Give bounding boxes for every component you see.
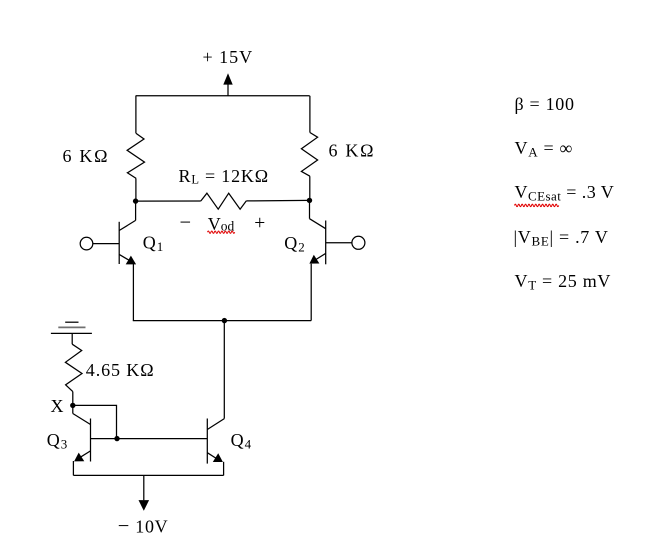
spellcheck squiggle under VCEsat [515, 204, 559, 206]
Q3 emitter wire [72, 461, 74, 475]
resistor RL 12K [201, 193, 247, 209]
wire node Q1 to RL [136, 200, 201, 202]
resistor 4.65K [65, 344, 82, 391]
wire top rail [136, 95, 310, 97]
Q2 collector wire [309, 200, 311, 218]
wire RL to node Q2 [246, 199, 309, 202]
Q2 emitter wire [310, 264, 312, 321]
node collector Q1 [133, 198, 138, 203]
wire right resistor to node [309, 176, 311, 200]
svg-text:−: − [180, 212, 192, 234]
transistor Q4 [207, 419, 224, 476]
wire emitter rail [133, 320, 311, 322]
transistor Q2 [309, 200, 365, 320]
Q4 emitter [207, 453, 218, 460]
svg-text:VA = ∞: VA = ∞ [515, 138, 574, 160]
wire left branch top [135, 96, 137, 133]
svg-text:6 KΩ: 6 KΩ [63, 146, 110, 166]
wire base rail Q3-Q4 [91, 438, 208, 440]
node tail junction [222, 318, 227, 323]
+15V supply arrow [227, 84, 229, 96]
wire resistor to node X [72, 392, 74, 406]
svg-text:|VBE| = .7 V: |VBE| = .7 V [514, 227, 609, 249]
Q1 collector wire [135, 201, 137, 220]
resistor 6K ohm right [301, 133, 317, 177]
Q4 base bar [206, 419, 208, 464]
svg-text:+ 15V: + 15V [203, 47, 254, 67]
node collector Q2 [307, 198, 312, 203]
wire tail down to Q4 collector [223, 321, 225, 419]
Q4 collector wire [207, 419, 224, 430]
wire right branch top [309, 96, 311, 133]
Q3 collector wire [72, 405, 74, 413]
svg-text:6 KΩ: 6 KΩ [329, 141, 376, 161]
resistor 6K ohm left [127, 133, 144, 178]
Q1 emitter wire [132, 264, 134, 321]
Q2 input terminal circle [352, 236, 365, 249]
wire node X to base drop [73, 405, 117, 438]
ground [51, 322, 92, 344]
svg-text:− 10V: − 10V [118, 515, 169, 537]
Q1 emitter [119, 254, 129, 260]
Q3 base bar [90, 419, 92, 462]
Q2 base wire [326, 242, 353, 244]
Q4 emitter wire [223, 462, 225, 476]
wire bottom rail [73, 474, 223, 476]
svg-text:β = 100: β = 100 [515, 94, 575, 114]
svg-text:+: + [254, 213, 265, 234]
node base junction [114, 436, 119, 441]
Q1 base bar [118, 222, 120, 264]
wire left resistor to node [135, 178, 137, 201]
Q1 input terminal circle [80, 237, 93, 250]
Q2 emitter [314, 253, 326, 261]
Q1 base wire [93, 243, 120, 245]
svg-text:X: X [51, 396, 64, 416]
-10V supply arrow [143, 475, 145, 500]
spellcheck squiggle under Vod [208, 231, 235, 233]
transistor Q3 [73, 405, 91, 475]
Q2 base bar [325, 221, 327, 265]
svg-text:4.65 KΩ: 4.65 KΩ [86, 360, 155, 380]
transistor Q1 [80, 201, 136, 321]
node X [70, 403, 75, 408]
Q3 emitter [78, 451, 91, 459]
